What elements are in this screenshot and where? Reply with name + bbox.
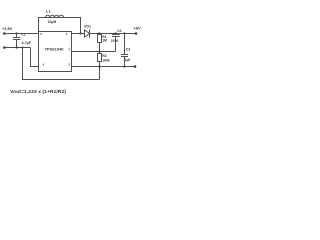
- svg-text:C1: C1: [21, 32, 25, 36]
- op-amp U1 TPS61040 box: [39, 32, 72, 72]
- svg-text:1: 1: [66, 32, 68, 36]
- svg-text:C2: C2: [117, 29, 121, 33]
- svg-text:2200: 2200: [111, 39, 119, 43]
- node SW junction: [79, 32, 81, 34]
- node FB junction: [98, 50, 100, 52]
- inductor L1: [39, 15, 81, 33]
- svg-text:180k: 180k: [102, 58, 110, 62]
- diode VD1: [85, 29, 90, 37]
- node C3 bottom: [123, 65, 125, 67]
- node C2 top: [114, 32, 116, 34]
- resistor R2: [99, 52, 101, 54]
- node GND-in terminal: [3, 46, 6, 49]
- node C1 top junction: [15, 32, 17, 34]
- svg-text:TPS61040: TPS61040: [45, 47, 65, 52]
- resistor R1: [99, 34, 101, 35]
- svg-text:4.7µF: 4.7µF: [22, 41, 32, 45]
- svg-text:+8V: +8V: [134, 26, 142, 31]
- wire FB rail: [72, 51, 116, 53]
- svg-text:1M: 1M: [102, 38, 107, 42]
- wire input ground stub: [4, 47, 30, 49]
- svg-text:L1: L1: [46, 10, 50, 14]
- node VIN terminal: [3, 32, 6, 35]
- svg-text:VD1: VD1: [84, 25, 91, 29]
- node C3 top: [123, 32, 125, 34]
- wire VIN rail: [4, 33, 38, 35]
- wire left ground drop and bottom rail: [23, 48, 100, 80]
- node GND-out terminal: [134, 65, 137, 68]
- wire output rail: [90, 33, 137, 35]
- capacitor C2: [112, 34, 120, 52]
- svg-text:2: 2: [68, 63, 70, 67]
- svg-text:10µH: 10µH: [48, 20, 57, 24]
- svg-text:4: 4: [43, 62, 45, 66]
- svg-text:+2.8V: +2.8V: [2, 26, 13, 31]
- capacitor C1: [13, 34, 21, 48]
- node R1 top: [98, 32, 100, 34]
- svg-text:Vout=1.233 x (1+R1/R2): Vout=1.233 x (1+R1/R2): [10, 89, 66, 95]
- node C1 bottom junction: [15, 46, 17, 48]
- svg-text:3: 3: [68, 47, 70, 51]
- svg-text:C3: C3: [126, 48, 130, 52]
- node R2 gnd junction: [98, 65, 100, 67]
- node gnd T-junction: [22, 47, 24, 49]
- wire GND rail right: [72, 66, 136, 68]
- svg-text:1µ0: 1µ0: [125, 58, 131, 62]
- capacitor C3: [121, 34, 128, 67]
- node +8V terminal: [135, 32, 138, 35]
- svg-text:5: 5: [40, 32, 42, 36]
- wire SW to diode: [72, 33, 85, 35]
- wire EN pin4 loop: [31, 48, 39, 67]
